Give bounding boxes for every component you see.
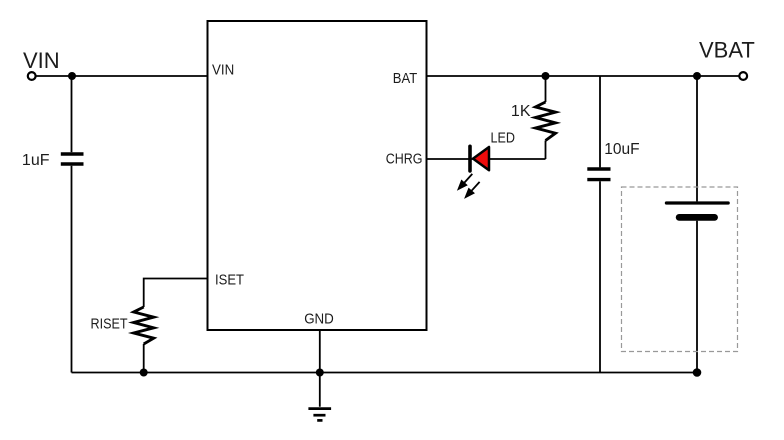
svg-text:BAT: BAT [393, 69, 418, 86]
svg-text:CHRG: CHRG [386, 151, 423, 167]
svg-text:1K: 1K [511, 103, 531, 120]
svg-text:1uF: 1uF [22, 152, 50, 169]
svg-text:LED: LED [491, 129, 516, 146]
svg-text:VBAT: VBAT [699, 37, 755, 62]
svg-text:VIN: VIN [212, 62, 234, 79]
svg-text:10uF: 10uF [604, 141, 639, 158]
svg-text:GND: GND [304, 310, 334, 327]
svg-text:ISET: ISET [215, 271, 244, 288]
svg-text:VIN: VIN [23, 48, 60, 73]
svg-text:RISET: RISET [91, 315, 129, 332]
